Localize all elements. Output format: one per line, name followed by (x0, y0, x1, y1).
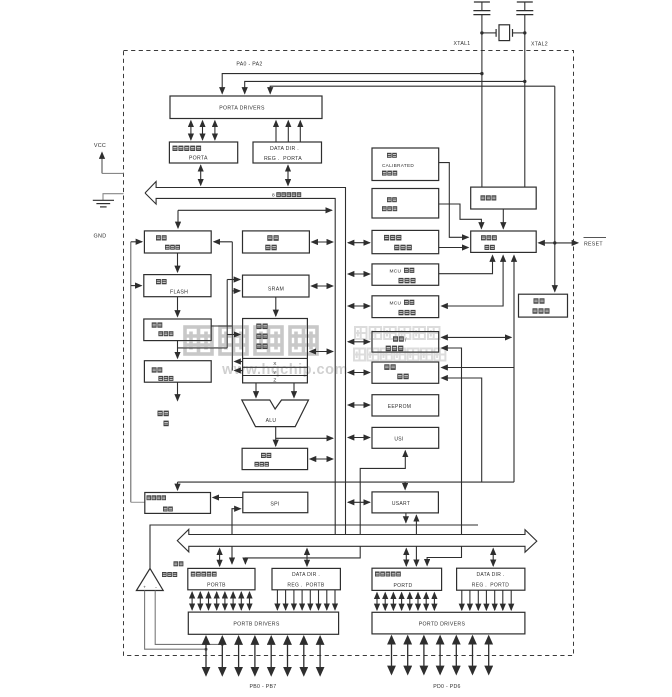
arrow SPI to programming logic (213, 497, 243, 499)
8-bit data bus arrow (145, 182, 346, 535)
XTAL2 load capacitor and ground (516, 2, 533, 15)
arrow data bus to timer/counters (348, 341, 370, 343)
svg-text:PD0 - PD6: PD0 - PD6 (433, 684, 461, 690)
svg-text:REG . PORTB: REG . PORTB (287, 582, 324, 588)
arrow ALU to status register and data bus (276, 427, 333, 446)
svg-text:PORTB: PORTB (207, 582, 226, 588)
instruction register output wires (178, 242, 241, 371)
arrow data bus to DDR B (306, 549, 308, 567)
svg-text:www.hqchip.com: www.hqchip.com (221, 362, 348, 378)
internal calibrated oscillator (372, 148, 439, 181)
wire SPI to PORTB pins (232, 509, 241, 564)
arrow timer/counters to trunk (442, 336, 512, 338)
svg-text:EEPROM: EEPROM (388, 404, 411, 410)
data register PORTA (169, 142, 237, 163)
svg-text:MCU: MCU (390, 300, 402, 306)
arrow stack pointer to data bus (312, 241, 333, 243)
wire USART TX (405, 513, 407, 523)
arrow general registers to data bus (310, 351, 333, 353)
svg-text:8: 8 (272, 192, 275, 198)
bottom data bus arrow (177, 529, 537, 552)
ground GND (93, 194, 124, 240)
analog comparator (136, 568, 163, 590)
arrow SRAM to general registers (275, 297, 277, 316)
VCC supply (94, 143, 124, 173)
wire data bus to program counter (178, 210, 332, 228)
USI (372, 427, 439, 448)
MCU status register (372, 296, 439, 318)
timer/counters (372, 332, 439, 353)
arrow data bus to data register PORTD (405, 549, 407, 566)
wire calibrated oscillator to timing control (439, 163, 469, 238)
svg-text:-: - (155, 584, 157, 590)
watermark www.hqchip.com (221, 362, 348, 378)
label 模拟比较器 (162, 561, 183, 577)
arrow data bus to USART (348, 501, 370, 503)
arrow data bus to EEPROM (348, 404, 370, 406)
svg-text:USI: USI (394, 437, 403, 443)
data register PORTD (372, 568, 442, 590)
arrows PORTA drivers to data register (191, 121, 215, 140)
arrow program counter to program flash (177, 253, 179, 272)
comparator input wires (145, 591, 224, 651)
arrow program flash to instruction register (177, 297, 179, 317)
pin label RESET (584, 238, 607, 248)
PORTB drivers (188, 612, 338, 634)
svg-text:MCU: MCU (390, 268, 402, 274)
svg-text:REG . PORTD: REG . PORTD (472, 583, 509, 589)
port label PB0 - PB7 (250, 684, 277, 690)
data register PORTB (188, 568, 255, 589)
svg-text:DATA DIR .: DATA DIR . (476, 572, 504, 578)
arrow data bus to watchdog timer (348, 242, 370, 244)
watermark 华强集团旗下 (355, 327, 440, 339)
wire timing control to programming logic / USART (178, 482, 515, 490)
wire XTAL1 (480, 15, 483, 188)
wire timer/counters to PORTD pins (427, 348, 461, 565)
wire XTAL2 (523, 15, 526, 188)
arrows general registers to ALU (256, 383, 294, 398)
interrupt unit wire 2 (442, 378, 482, 482)
pin label XTAL1 (454, 41, 471, 47)
data direction register PORTA (253, 142, 322, 163)
watchdog timer (372, 230, 439, 253)
svg-text:CALIBRATED: CALIBRATED (382, 163, 414, 168)
arrow data register PORTA to data bus (200, 165, 202, 185)
instruction decoder (144, 361, 211, 383)
programming logic (145, 493, 211, 514)
general purpose registers X Y Z (243, 319, 308, 383)
port label PA0 - PA2 (236, 62, 262, 68)
PORTD drivers (372, 612, 525, 634)
arrow watchdog to timing control (439, 247, 469, 249)
wire MCU control register to timing control (439, 256, 493, 274)
arrow data bus to DDR D (492, 549, 494, 566)
arrow instruction register to instruction decoder (177, 341, 179, 359)
ALU (242, 400, 309, 427)
pin label XTAL2 (531, 42, 548, 48)
svg-text:FLASH: FLASH (170, 290, 188, 296)
on-chip debugger (519, 294, 568, 317)
arrow data bus to data register PORTB (219, 549, 221, 567)
crystal Y1 (482, 25, 525, 41)
bus label 8位数据总线 (272, 192, 301, 198)
arrow data bus to interrupt unit (348, 372, 370, 374)
svg-text:XTAL2: XTAL2 (531, 42, 548, 48)
svg-text:DATA DIR .: DATA DIR . (270, 146, 299, 152)
PORTD pin arrows PD0-PD6 (392, 636, 489, 674)
wire to PORTA drivers 2 (245, 81, 525, 93)
Y register wire (235, 370, 243, 372)
svg-text:PORTD DRIVERS: PORTD DRIVERS (419, 622, 466, 628)
svg-text:SPI: SPI (270, 502, 279, 508)
wire USART to PORTD register (415, 515, 417, 566)
svg-text:PORTA: PORTA (189, 156, 208, 162)
oscillator (471, 187, 537, 209)
wire to PORTA drivers 1 (222, 74, 482, 94)
arrow data bus to USI (348, 437, 370, 439)
svg-text:Z: Z (273, 378, 276, 384)
program counter (144, 231, 211, 253)
interrupt unit (372, 362, 439, 383)
MCU control register (372, 264, 439, 285)
svg-text:PORTA DRIVERS: PORTA DRIVERS (219, 106, 265, 112)
left address feed wire (131, 242, 145, 503)
interrupt unit wire 1 (442, 367, 515, 369)
svg-text:PORTB DRIVERS: PORTB DRIVERS (233, 622, 279, 628)
EEPROM (372, 395, 439, 416)
svg-text:USART: USART (392, 501, 410, 507)
svg-text:PA0 - PA2: PA0 - PA2 (236, 62, 262, 68)
wire USI to PORTB pins (245, 451, 405, 564)
arrows data register PORTB to drivers (192, 592, 249, 610)
arrow data bus to MCU control register (348, 273, 370, 275)
label 控制线 (158, 411, 169, 427)
svg-text:+: + (143, 584, 146, 589)
X register wire (235, 361, 243, 363)
wire timing control to MCU status register (442, 256, 504, 307)
svg-text:PORTD: PORTD (394, 583, 413, 589)
arrows DDR D to drivers (462, 590, 511, 610)
arrow status register to data bus (310, 458, 333, 460)
XTAL1 load capacitor and ground (473, 2, 490, 15)
SPI (243, 492, 308, 513)
data direction register PORTB (272, 568, 340, 589)
internal oscillator (372, 189, 439, 219)
wire to PORTA drivers 3 / on-chip debugger feed (270, 86, 556, 291)
USART (372, 492, 438, 513)
wire timing control trunk (513, 256, 515, 483)
data direction register PORTD (457, 568, 525, 590)
SRAM (243, 275, 310, 297)
port label PD0 - PD6 (433, 684, 461, 690)
control lines arrow (177, 382, 179, 400)
arrows data register PORTD to drivers (377, 593, 434, 610)
svg-text:XTAL1: XTAL1 (454, 41, 471, 47)
svg-text:DATA DIR .: DATA DIR . (292, 572, 320, 578)
arrow oscillator to timing control (502, 209, 504, 229)
arrows DDR B to drivers (277, 590, 335, 610)
arrow DDR A to data bus (287, 165, 289, 185)
svg-text:REG . PORTA: REG . PORTA (264, 156, 302, 162)
watermark 华强芯城 (185, 327, 317, 354)
chip dashed border (124, 51, 574, 656)
svg-text:GND: GND (94, 234, 107, 240)
svg-text:SRAM: SRAM (268, 287, 284, 293)
svg-text:ALU: ALU (266, 418, 277, 424)
wire internal oscillator to timing control (439, 204, 482, 229)
RESET wire (539, 242, 579, 244)
status register (242, 448, 308, 469)
svg-text:VCC: VCC (94, 143, 106, 149)
svg-text:PB0 - PB7: PB0 - PB7 (250, 684, 277, 690)
watermark 元器件在线商城 (354, 349, 445, 361)
arrows DDR A to drivers (276, 121, 300, 142)
instruction register (144, 319, 211, 341)
stack pointer (243, 231, 310, 253)
program flash (144, 275, 211, 297)
arrow data bus to MCU status register (348, 305, 370, 307)
PORTA DRIVERS (170, 96, 322, 119)
arrow SRAM to data bus (311, 285, 333, 287)
PORTB pin arrows PB0-PB7 (206, 637, 320, 676)
comparator output wire (150, 525, 478, 568)
timing and control (471, 231, 537, 252)
svg-text:RESET: RESET (584, 242, 603, 248)
